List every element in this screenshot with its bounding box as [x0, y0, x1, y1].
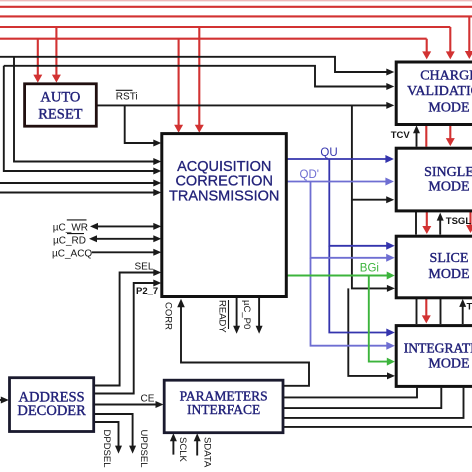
svg-text:DPDSEL: DPDSEL	[101, 430, 112, 468]
svg-text:SINGLE: SINGLE	[424, 165, 472, 180]
svg-text:READY: READY	[217, 300, 228, 333]
svg-text:RESET: RESET	[38, 106, 82, 122]
svg-text:MODE: MODE	[428, 180, 469, 195]
svg-text:RSTi: RSTi	[116, 92, 138, 103]
svg-text:µC_WR: µC_WR	[53, 222, 88, 233]
svg-text:µC_P0: µC_P0	[241, 300, 252, 329]
svg-text:VALIDATION: VALIDATION	[407, 84, 472, 99]
svg-text:PARAMETERS: PARAMETERS	[180, 388, 268, 403]
svg-text:TCV: TCV	[391, 130, 411, 141]
svg-text:P2_7: P2_7	[136, 286, 158, 297]
svg-text:MODE: MODE	[428, 357, 469, 372]
svg-text:INTEGRATION: INTEGRATION	[404, 341, 472, 356]
svg-text:µC_RD: µC_RD	[53, 235, 86, 246]
svg-text:CE: CE	[141, 393, 155, 404]
svg-text:TIN: TIN	[467, 302, 472, 313]
svg-text:µC_ACQ: µC_ACQ	[52, 249, 92, 260]
svg-text:SEL: SEL	[135, 261, 154, 272]
svg-text:SLICE: SLICE	[430, 251, 469, 266]
svg-text:MODE: MODE	[428, 267, 469, 282]
svg-text:SCLK: SCLK	[177, 437, 188, 462]
svg-text:TRANSMISSION: TRANSMISSION	[169, 189, 279, 205]
svg-text:UPDSEL: UPDSEL	[138, 430, 149, 468]
svg-text:MODE: MODE	[428, 100, 469, 115]
svg-text:CHARGE: CHARGE	[420, 68, 472, 83]
svg-text:AUTO: AUTO	[40, 89, 80, 105]
svg-text:INTERFACE: INTERFACE	[187, 402, 260, 417]
svg-text:BGi: BGi	[360, 263, 379, 275]
svg-text:SDATA: SDATA	[202, 437, 213, 468]
svg-text:DECODER: DECODER	[17, 403, 86, 419]
svg-text:TSGL: TSGL	[446, 216, 472, 227]
svg-text:ACQUISITION: ACQUISITION	[177, 159, 271, 175]
svg-text:CORR: CORR	[163, 302, 174, 330]
svg-text:QD': QD'	[300, 169, 319, 181]
svg-text:CORRECTION: CORRECTION	[175, 174, 272, 190]
svg-text:QU: QU	[320, 147, 337, 159]
